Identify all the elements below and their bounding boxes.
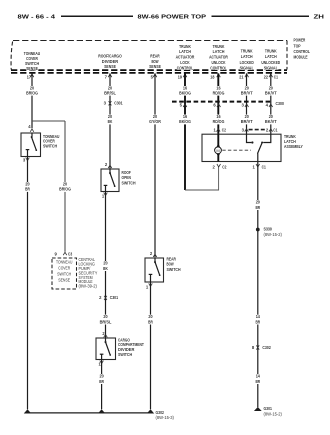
svg-text:TRUNK: TRUNK [265,49,277,54]
svg-text:SENSE: SENSE [104,64,116,69]
wire 20 BK from roof open switch to C301 [105,192,107,338]
wire label 14 BR (below C302) [251,374,265,384]
svg-text:4: 4 [28,124,31,129]
svg-text:(8W-39-2): (8W-39-2) [79,284,98,289]
svg-text:BR: BR [255,379,260,384]
svg-text:BK: BK [108,119,113,124]
central locking pump module dashed box [52,258,77,289]
tonneau cover switch pin 4 [28,124,34,132]
svg-text:BK/OG: BK/OG [179,119,191,124]
svg-text:LOCK: LOCK [180,60,190,65]
module section label: trunk latch unlocked signal [261,49,280,71]
wire label 20 BR [95,374,109,384]
svg-text:21: 21 [239,75,244,80]
svg-text:1: 1 [253,164,256,169]
module pin connector carets [30,74,272,77]
wire label 20 BK [99,261,113,271]
ground triangle at cargo divider wire [98,409,105,413]
svg-text:3: 3 [242,127,245,132]
wire label 20 BR/SL [99,314,113,324]
svg-text:BOW: BOW [151,59,159,64]
svg-text:CONTROL: CONTROL [294,49,311,54]
wire 20 GY/OR from module pin 5 to rear bow switch [154,73,156,257]
svg-text:REAR: REAR [150,53,160,58]
svg-text:ASSEMBLY: ASSEMBLY [284,144,303,149]
svg-text:TONNEAU: TONNEAU [56,260,72,265]
svg-text:C301: C301 [114,101,123,106]
svg-text:BK/OG: BK/OG [179,90,191,95]
svg-text:BK/VT: BK/VT [265,119,277,124]
connector C302 pin 8 [252,345,272,350]
svg-text:SENSE: SENSE [26,66,38,71]
wire label 16 BK/OG (lower) [178,114,192,124]
svg-text:UNLOCKED: UNLOCKED [261,60,280,65]
wire label 20 BR [21,182,35,192]
svg-text:BR/VT: BR/VT [241,119,253,124]
roof open switch pin 1 [102,193,107,199]
svg-text:TRUNK: TRUNK [179,44,191,49]
svg-text:BR: BR [25,187,30,192]
tonneau cover switch label [43,134,59,148]
wire label 20 BK/VT (upper) [264,85,278,95]
ground triangle at rear bow wire / G302 [147,409,154,413]
cargo compartment divider switch pin 1 [98,361,103,367]
wire 20 BR from tonneau switch to ground bus [27,157,29,410]
svg-text:(8W-15-2): (8W-15-2) [264,232,283,237]
svg-text:BR: BR [255,319,260,324]
wire label 20 BK [103,114,117,124]
svg-text:LATCH: LATCH [265,54,277,59]
trunk latch assembly label [284,134,303,149]
svg-text:SWITCH: SWITCH [118,352,132,357]
wire 20 BR from rear bow switch to ground G302 [150,282,152,409]
svg-text:C300: C300 [276,101,285,106]
wire 20 BR from cargo divider switch to ground bus [101,360,103,410]
svg-text:RD/OG: RD/OG [213,119,225,124]
svg-text:3: 3 [104,101,107,106]
connector C300 [172,101,284,106]
svg-text:ZH: ZH [314,15,325,21]
wire label 20 BK/VT (lower) [264,114,278,124]
trunk latch switch contact from pin 3 [247,134,254,143]
connector C3 pin 9 [54,251,72,256]
ground G301 [254,406,283,416]
splice S330 [256,227,283,238]
svg-text:ACTUATOR: ACTUATOR [176,55,196,60]
svg-text:S330: S330 [264,227,273,232]
svg-text:UNLOCK: UNLOCK [211,60,226,65]
trunk latch motor pin 2 C2 [212,164,227,169]
svg-text:G301: G301 [264,406,273,411]
roof open switch S2 [101,169,119,192]
ground bus to G302 [25,412,152,414]
svg-text:BK: BK [103,266,108,271]
svg-text:SWITCH: SWITCH [57,272,71,277]
svg-text:LATCH: LATCH [179,49,191,54]
wire branch to central locking module [32,120,65,122]
wire label 20 BR/OG (branch) [58,182,72,192]
svg-text:SIGNAL: SIGNAL [264,66,278,71]
wire jog to trunk latch motor pin 2 [185,167,219,191]
trunk latch assembly box [202,134,281,161]
rear bow switch S4 [145,258,164,282]
svg-text:SWITCH: SWITCH [122,180,136,185]
wire 20 BK/VT from module pin 22 [270,73,272,134]
svg-text:C1: C1 [273,127,278,132]
svg-text:5: 5 [180,103,183,108]
svg-text:DIVIDER: DIVIDER [102,59,119,64]
module section label: rear bow sense [149,53,161,69]
rear bow switch pin 1 [146,283,152,289]
svg-text:MODULE: MODULE [294,55,308,60]
roof open switch label [122,170,136,185]
svg-text:M: M [216,148,219,153]
svg-text:ROOF/CARGO: ROOF/CARGO [98,53,122,58]
central locking pump / security system module label [79,257,98,288]
module section label: trunk latch actuator unlock control [209,44,229,71]
wire label 16 RD/OG (upper) [212,85,226,95]
ground triangle at tonneau wire [24,409,31,413]
svg-text:C301: C301 [110,295,119,300]
svg-text:7: 7 [105,75,108,80]
svg-text:2: 2 [105,162,108,167]
trunk latch C1 dashed connector [249,129,269,131]
wire 16 BK/OG from module pin 19 [184,73,186,190]
cargo compartment divider switch pin 2 [102,331,107,337]
svg-text:8: 8 [252,345,255,350]
trunk latch connector row: pin 2 C1 [266,127,278,132]
svg-text:COVER: COVER [58,266,70,271]
wire label 20 BR [251,200,265,210]
svg-text:LOCKED: LOCKED [240,60,254,65]
svg-text:SENSE: SENSE [149,64,161,69]
svg-text:CONTROL: CONTROL [177,65,194,70]
mechanical link dashed line [222,149,251,151]
svg-text:C1: C1 [262,164,267,169]
trunk latch switch lever [258,142,264,162]
rear bow switch label [167,257,181,272]
wire 20 BR/VT from module pin 21 [246,73,248,134]
svg-text:BR/OG: BR/OG [26,90,38,95]
power top control module label [294,38,311,60]
svg-text:1: 1 [146,285,149,290]
svg-text:SIGNAL: SIGNAL [240,66,254,71]
svg-text:1: 1 [214,127,217,132]
wire label 20 BR/OG [25,85,39,95]
svg-text:C1: C1 [274,74,279,79]
connector C301 pin 3 [104,101,124,106]
power top control module U1 dashed box [11,41,287,73]
svg-text:C2: C2 [222,127,227,132]
ground G302 label [156,410,175,420]
svg-text:BR/SL: BR/SL [100,319,112,324]
module section label: tonneau cover switch sense [24,51,40,71]
connector C300 carets [183,104,272,107]
svg-text:8W - 66 - 4: 8W - 66 - 4 [18,15,57,21]
svg-text:LATCH: LATCH [213,49,225,54]
svg-text:2: 2 [150,251,153,256]
svg-text:BR/OG: BR/OG [59,187,71,192]
wire label 20 GY/OR [148,114,162,124]
trunk latch switch contact from pin 2 [263,134,271,142]
svg-text:22: 22 [264,75,269,80]
svg-text:2: 2 [266,127,269,132]
trunk latch switch pin 1 C1 [253,164,267,169]
central locking module section label: tonneau cover switch sense [56,260,72,283]
wire 20 BR/OG from module pin 17 to tonneau cover switch [31,73,33,128]
svg-text:8W-66 POWER TOP: 8W-66 POWER TOP [138,15,207,21]
trunk latch connector row: pin 1 C2 [214,127,227,132]
connector C301 pin 2 [99,295,119,300]
svg-text:2: 2 [99,295,102,300]
svg-text:C302: C302 [262,345,271,350]
wire label 14 BR (above C302) [251,314,265,324]
svg-text:BR: BR [148,319,153,324]
wire label 16 BK/OG (upper) [178,85,192,95]
svg-text:BR/SL: BR/SL [104,90,116,95]
wire label 16 RD/OG (lower) [212,114,226,124]
svg-text:SWITCH: SWITCH [167,267,181,272]
header rule left [61,15,133,17]
trunk latch motor M [215,134,222,161]
svg-text:C2: C2 [222,164,227,169]
wire label 20 BR/VT (lower) [240,114,254,124]
svg-text:C3: C3 [68,251,73,256]
module section label: trunk latch actuator lock control [176,44,196,71]
svg-text:BK/VT: BK/VT [265,90,277,95]
svg-text:19: 19 [178,75,183,80]
wire label 20 BR [144,314,158,324]
svg-text:CONTROL: CONTROL [210,65,227,70]
svg-text:TRUNK: TRUNK [213,44,225,49]
tonneau cover switch S1 [21,133,41,157]
module section label: trunk latch locked signal [240,49,254,71]
svg-text:9: 9 [54,251,57,256]
svg-text:TRUNK: TRUNK [241,49,253,54]
svg-text:BR: BR [255,205,260,210]
module section label: roof/cargo divider sense [98,53,122,69]
svg-text:18: 18 [210,75,215,80]
svg-text:3: 3 [242,103,245,108]
header rule right [212,15,310,17]
svg-text:(8W-15-2): (8W-15-2) [264,412,283,417]
svg-text:2: 2 [212,164,215,169]
wire label 20 BR/VT (upper) [240,85,254,95]
roof open switch pin 2 [105,162,112,168]
svg-text:4: 4 [266,103,269,108]
wire 16 RD/OG from module pin 18 to trunk latch motor [217,73,219,134]
svg-text:GY/OR: GY/OR [149,119,161,124]
svg-text:TOP: TOP [294,43,301,48]
svg-text:BR: BR [99,379,104,384]
svg-text:LATCH: LATCH [241,54,253,59]
cargo compartment divider switch S3 [96,338,116,360]
wire 20 BR/SL from module pin 7 [109,73,111,168]
svg-text:3: 3 [23,158,26,163]
svg-text:6: 6 [213,103,216,108]
svg-text:BR/VT: BR/VT [241,90,253,95]
cargo compartment divider switch label [118,337,144,356]
tonneau cover switch pin 3 [23,158,29,163]
svg-text:ACTUATOR: ACTUATOR [209,55,229,60]
wire 20 BR from trunk latch pin 1 [257,162,259,407]
svg-text:SENSE: SENSE [58,278,70,283]
svg-text:SWITCH: SWITCH [43,143,57,148]
trunk latch connector row: pin 3 [242,127,249,132]
svg-text:POWER: POWER [294,38,306,43]
svg-text:RD/OG: RD/OG [213,90,225,95]
wire label 20 BR/SL [103,85,117,95]
svg-text:(8W-15-3): (8W-15-3) [156,415,175,420]
module connector C1 pin row [27,74,279,79]
rear bow switch pin 2 [150,251,157,257]
